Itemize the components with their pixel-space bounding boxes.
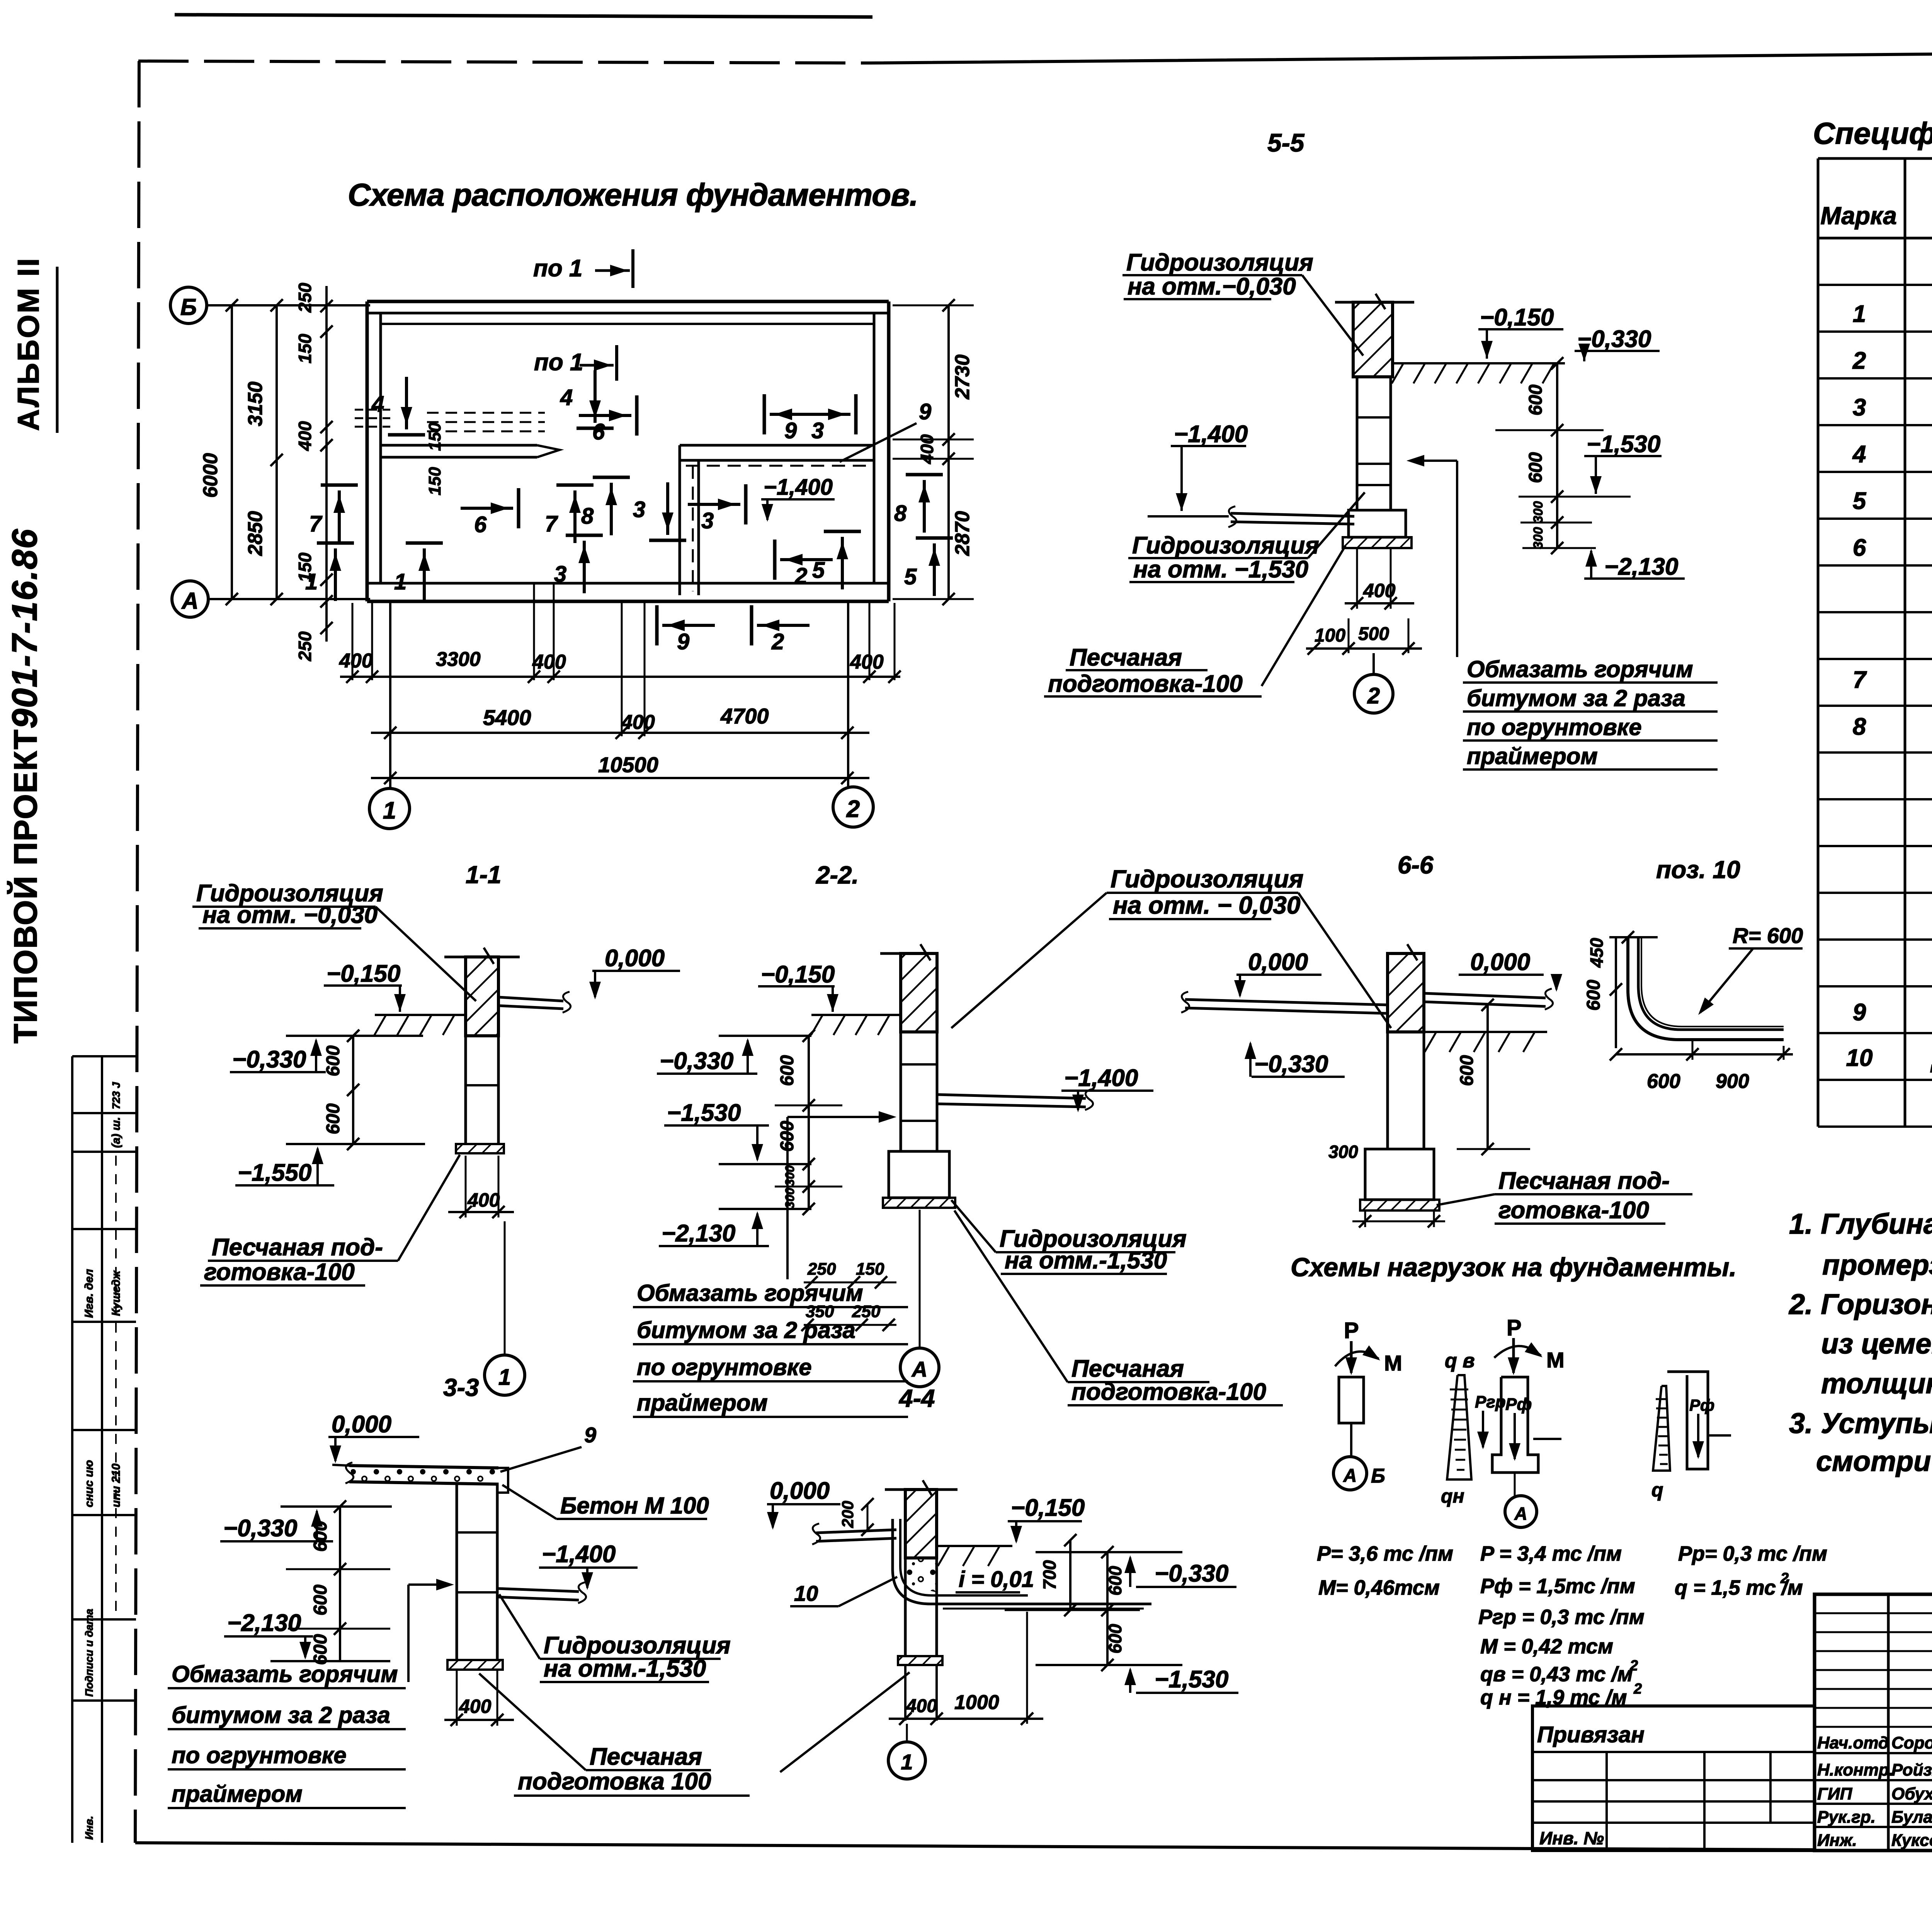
- 4-4 peschanaya leader: [780, 1672, 910, 1772]
- svg-text:600: 600: [1583, 980, 1604, 1011]
- 2-2 dim vertical: [808, 1036, 810, 1209]
- 1-1 wall hatched: [466, 957, 498, 1036]
- svg-text:5400: 5400: [483, 705, 531, 730]
- svg-text:на отм.−0,030: на отм.−0,030: [1128, 273, 1296, 300]
- svg-text:723 J: 723 J: [110, 1082, 122, 1109]
- svg-text:1: 1: [394, 569, 406, 594]
- svg-text:300: 300: [1328, 1142, 1358, 1162]
- plan cut mark 4: [577, 427, 614, 430]
- svg-text:Песчаная под-: Песчаная под-: [212, 1234, 383, 1261]
- svg-text:Подписи и дата: Подписи и дата: [83, 1609, 95, 1697]
- svg-text:3: 3: [633, 497, 645, 522]
- svg-text:qн: qн: [1441, 1485, 1464, 1507]
- svg-text:ипи 210: ипи 210: [110, 1463, 122, 1507]
- svg-text:400: 400: [295, 421, 315, 451]
- svg-text:Схема расположения фундамент: Схема расположения фундаментов.: [348, 177, 918, 213]
- svg-text:1. Глубина заложения фундам: 1. Глубина заложения фундамента принята …: [1789, 1208, 1932, 1240]
- plan cut mark 9: [763, 394, 766, 434]
- svg-text:Ройзман: Ройзман: [1891, 1760, 1932, 1779]
- plan cut mark 5: [824, 530, 861, 533]
- svg-text:М = 0,42 тсм: М = 0,42 тсм: [1480, 1635, 1613, 1658]
- pos10 left dim: [1615, 937, 1617, 1048]
- 5-5 floor slab: [1231, 513, 1354, 516]
- svg-text:9: 9: [784, 418, 797, 443]
- plan cut mark 5: [916, 536, 953, 540]
- dim chain small left: [325, 286, 328, 642]
- svg-text:150: 150: [295, 552, 315, 582]
- svg-text:400: 400: [917, 434, 937, 464]
- svg-text:600: 600: [777, 1055, 798, 1086]
- svg-text:−2,130: −2,130: [662, 1220, 735, 1247]
- svg-text:Спецификация к схеме располо: Спецификация к схеме расположения фундам…: [1813, 116, 1932, 150]
- svg-text:−1,400: −1,400: [542, 1541, 616, 1568]
- svg-text:250: 250: [807, 1260, 836, 1279]
- svg-text:q в: q в: [1445, 1350, 1475, 1372]
- svg-text:2. Горизонтальная гидроизоля: 2. Горизонтальная гидроизоляция стен вып…: [1788, 1288, 1932, 1320]
- spec table horizontal lines: [1818, 157, 1932, 160]
- 3-3 top slab: [349, 1466, 498, 1468]
- svg-text:А: А: [1514, 1503, 1527, 1524]
- svg-text:Н.контр.: Н.контр.: [1817, 1760, 1894, 1779]
- svg-text:4: 4: [560, 385, 573, 410]
- svg-text:P = 3,4 тс /пм: P = 3,4 тс /пм: [1480, 1542, 1622, 1565]
- svg-text:А: А: [911, 1357, 927, 1381]
- 6-6 wall hatched: [1388, 953, 1424, 1032]
- svg-text:5: 5: [1853, 488, 1867, 514]
- svg-text:ГИП: ГИП: [1817, 1784, 1853, 1803]
- svg-text:−1,400: −1,400: [1064, 1065, 1138, 1091]
- svg-text:6: 6: [1853, 535, 1866, 561]
- svg-text:по 1: по 1: [533, 255, 582, 282]
- axis circle 1: [369, 788, 410, 829]
- svg-text:по огрунтовке: по огрунтовке: [1467, 714, 1642, 740]
- upper grid verticals: [1887, 1594, 1890, 1851]
- svg-text:толщиной 20 мм.: толщиной 20 мм.: [1821, 1367, 1932, 1399]
- svg-text:Булатова: Булатова: [1891, 1808, 1932, 1827]
- svg-text:9: 9: [584, 1423, 596, 1447]
- svg-text:3: 3: [1853, 394, 1866, 421]
- svg-text:400: 400: [532, 651, 566, 673]
- svg-text:−0,330: −0,330: [1254, 1051, 1328, 1078]
- 6-6 slab left: [1185, 999, 1388, 1005]
- spec table vertical lines: [1817, 158, 1820, 1127]
- svg-text:Гидроизоляция: Гидроизоляция: [1111, 865, 1303, 893]
- svg-text:−1,530: −1,530: [667, 1100, 741, 1126]
- svg-text:праймером: праймером: [637, 1390, 768, 1416]
- svg-text:400: 400: [621, 711, 655, 734]
- svg-text:ТИПОВОЙ ПРОЕКТ: ТИПОВОЙ ПРОЕКТ: [7, 729, 44, 1044]
- dim chain 400-3300-400: [340, 676, 900, 678]
- 5-5 slab level line: [1148, 515, 1229, 518]
- svg-text:Инж.: Инж.: [1817, 1831, 1857, 1850]
- svg-text:600: 600: [1526, 452, 1546, 483]
- 6-6 wall below: [1386, 1032, 1389, 1149]
- svg-text:снис ию: снис ию: [83, 1460, 95, 1507]
- room left wall: [679, 445, 681, 595]
- axis line B: [207, 304, 370, 306]
- 1-1 sand strip: [456, 1144, 504, 1153]
- svg-text:праймером: праймером: [1467, 743, 1598, 769]
- 2-2 ground hatch left: [811, 1014, 901, 1016]
- privyazan box: [1532, 1706, 1815, 1851]
- svg-text:−2,130: −2,130: [227, 1610, 301, 1636]
- svg-text:400: 400: [850, 651, 884, 673]
- svg-text:Рук.гр.: Рук.гр.: [1817, 1808, 1876, 1827]
- svg-text:3150: 3150: [244, 381, 267, 426]
- svg-text:−1,550: −1,550: [238, 1159, 311, 1186]
- svg-text:−0,330: −0,330: [232, 1046, 306, 1073]
- scheme2 M arc: [1494, 1346, 1541, 1358]
- svg-text:7: 7: [1853, 667, 1867, 693]
- svg-text:М: М: [1384, 1351, 1402, 1375]
- 3-3 obmazat leader: [407, 1585, 410, 1682]
- left stamp table verticals: [71, 1056, 73, 1843]
- svg-text:5-5: 5-5: [1267, 128, 1305, 157]
- scheme1 column: [1339, 1377, 1364, 1423]
- svg-text:6: 6: [474, 512, 487, 537]
- 4-4 right dims: [1069, 1540, 1071, 1610]
- svg-text:Песчаная: Песчаная: [1071, 1355, 1184, 1382]
- 2-2 wall hatched: [901, 953, 937, 1032]
- svg-text:150: 150: [425, 467, 444, 495]
- svg-text:по 1: по 1: [534, 349, 583, 376]
- plan cut mark 3: [744, 484, 748, 524]
- svg-text:0,000: 0,000: [332, 1411, 391, 1438]
- svg-text:9: 9: [919, 399, 931, 424]
- svg-text:600: 600: [1647, 1070, 1680, 1093]
- plan cut mark 3: [566, 534, 603, 537]
- svg-text:Б: Б: [180, 294, 197, 320]
- pos10 top ticks: [1609, 936, 1658, 938]
- dim line 6000: [231, 305, 233, 599]
- svg-text:2850: 2850: [244, 511, 267, 556]
- svg-text:−0,330: −0,330: [1155, 1560, 1228, 1587]
- upper grid rows: [1815, 1612, 1932, 1614]
- svg-text:150: 150: [295, 334, 315, 363]
- svg-text:−1,530: −1,530: [1155, 1666, 1228, 1693]
- svg-text:по огрунтовке: по огрунтовке: [637, 1354, 812, 1380]
- svg-text:готовка-100: готовка-100: [204, 1259, 355, 1285]
- svg-text:3300: 3300: [436, 648, 481, 671]
- svg-text:1: 1: [383, 797, 396, 824]
- svg-text:готовка-100: готовка-100: [1498, 1197, 1649, 1224]
- svg-text:0,000: 0,000: [1248, 949, 1308, 976]
- svg-text:5: 5: [904, 564, 917, 589]
- 2-2 wall below: [900, 1032, 902, 1151]
- 2-2 circle A: [900, 1348, 939, 1387]
- 4-4 floor slab: [816, 1530, 896, 1533]
- svg-text:подготовка-100: подготовка-100: [1071, 1379, 1266, 1405]
- 6-6 ground hatch: [1424, 1031, 1547, 1033]
- plan cut mark 7: [321, 484, 358, 487]
- svg-text:Песчаная под-: Песчаная под-: [1498, 1168, 1670, 1194]
- svg-text:400: 400: [459, 1696, 492, 1717]
- svg-text:P: P: [1344, 1318, 1359, 1343]
- dim chain 10500: [371, 777, 869, 779]
- svg-text:А: А: [181, 588, 198, 614]
- svg-text:600: 600: [1105, 1566, 1125, 1595]
- svg-text:1: 1: [498, 1365, 511, 1390]
- svg-text:Pф: Pф: [1689, 1396, 1714, 1414]
- svg-text:−1,400: −1,400: [1174, 421, 1248, 448]
- svg-text:q: q: [1651, 1479, 1663, 1501]
- plan cut mark 2: [773, 540, 777, 580]
- 5-5 sand strip: [1343, 537, 1412, 548]
- right dim chain: [947, 305, 950, 599]
- svg-text:Гидроизоляция: Гидроизоляция: [1126, 249, 1313, 276]
- svg-text:3. Уступы на схеме условн: 3. Уступы на схеме условно не показаны,: [1789, 1407, 1932, 1439]
- svg-text:Гидроизоляция: Гидроизоляция: [544, 1632, 731, 1659]
- 5-5 footing: [1349, 510, 1406, 537]
- svg-text:Игв. дел: Игв. дел: [83, 1269, 95, 1318]
- axis circle B: [170, 287, 207, 323]
- svg-text:Pгр = 0,3 тс /пм: Pгр = 0,3 тс /пм: [1478, 1605, 1645, 1629]
- svg-text:4: 4: [371, 392, 384, 417]
- svg-text:на отм. −1,530: на отм. −1,530: [1133, 556, 1308, 583]
- svg-text:3: 3: [811, 418, 824, 443]
- 1-1 wall top caps: [444, 956, 466, 958]
- svg-text:10500: 10500: [598, 752, 658, 777]
- plan cut mark 6: [635, 395, 639, 436]
- extension lines bottom: [352, 603, 354, 680]
- svg-text:2870: 2870: [951, 511, 974, 556]
- svg-text:Нач.отд: Нач.отд: [1817, 1733, 1889, 1752]
- 4-4 wall below strip: [904, 1665, 906, 1721]
- 1-1 ground hatch: [375, 1014, 466, 1016]
- svg-text:на отм. − 0,030: на отм. − 0,030: [1113, 891, 1300, 919]
- 5-5 wall hatched: [1353, 302, 1393, 377]
- plan cut mark 1: [406, 541, 443, 545]
- svg-text:250: 250: [295, 631, 315, 661]
- svg-text:Обух: Обух: [1891, 1784, 1932, 1803]
- 4-4 ground hatch: [937, 1545, 1012, 1547]
- svg-text:9: 9: [677, 629, 689, 654]
- 4-4 wall hatched: [905, 1490, 937, 1558]
- 4-4 gravel: [905, 1558, 937, 1592]
- svg-text:900: 900: [1716, 1070, 1749, 1093]
- scheme1 M arc: [1335, 1352, 1379, 1366]
- svg-text:АЛЬБОМ II: АЛЬБОМ II: [11, 257, 45, 431]
- svg-text:500: 500: [1358, 624, 1389, 644]
- svg-text:2-2.: 2-2.: [816, 861, 859, 889]
- svg-text:праймером: праймером: [172, 1781, 303, 1807]
- scheme1 axis circles: [1333, 1457, 1367, 1490]
- svg-text:Куксов: Куксов: [1891, 1831, 1932, 1850]
- svg-text:2: 2: [771, 629, 784, 654]
- svg-text:7: 7: [545, 511, 558, 536]
- svg-text:7: 7: [309, 511, 323, 536]
- room top wall: [680, 444, 874, 447]
- scheme2 axis circle: [1505, 1496, 1537, 1527]
- svg-text:2: 2: [794, 564, 807, 589]
- dim chain 5400-400-4700: [371, 732, 869, 734]
- svg-text:Обмазать горячим: Обмазать горячим: [172, 1661, 398, 1687]
- 2-2 obmazat leader: [786, 1117, 789, 1279]
- svg-text:P= 3,6 тс /пм: P= 3,6 тс /пм: [1317, 1542, 1453, 1565]
- svg-text:600: 600: [310, 1521, 331, 1552]
- 3-3 left dim: [339, 1507, 341, 1660]
- plan cut mark 3: [649, 539, 686, 542]
- frame top border: [138, 61, 869, 63]
- 3-3 floor slab: [497, 1588, 579, 1592]
- svg-text:6-6: 6-6: [1398, 851, 1434, 879]
- svg-text:300: 300: [783, 1165, 797, 1186]
- signature rows: [1815, 1752, 1932, 1754]
- svg-text:250: 250: [295, 283, 315, 313]
- svg-text:2: 2: [846, 796, 860, 822]
- svg-text:400: 400: [467, 1189, 500, 1211]
- svg-text:2: 2: [1780, 1570, 1789, 1587]
- svg-text:из цементного растворного: из цементного растворного состава 1:2.: [1821, 1328, 1932, 1360]
- svg-text:5: 5: [812, 558, 825, 583]
- svg-text:Б: Б: [1371, 1465, 1385, 1487]
- svg-text:1: 1: [901, 1750, 913, 1774]
- svg-text:9: 9: [1853, 999, 1866, 1026]
- 5-5 wall below ground: [1356, 377, 1359, 510]
- svg-text:600: 600: [1526, 385, 1546, 415]
- 5-5 right dim line: [1556, 363, 1558, 548]
- svg-text:700: 700: [1039, 1560, 1060, 1590]
- svg-text:i = 0,01: i = 0,01: [959, 1567, 1034, 1592]
- axis extension line 2: [847, 603, 849, 787]
- 3-3 sand strip: [447, 1660, 503, 1670]
- 1-1 wall below: [464, 1036, 467, 1144]
- svg-text:Песчаная: Песчаная: [590, 1743, 702, 1770]
- svg-text:2: 2: [1852, 347, 1866, 374]
- svg-text:8: 8: [581, 504, 594, 529]
- svg-text:на отм.-1,530: на отм.-1,530: [544, 1655, 706, 1682]
- title block outer: [1815, 1594, 1932, 1851]
- svg-text:−0,150: −0,150: [1011, 1495, 1085, 1521]
- svg-text:Обмазать горячим: Обмазать горячим: [637, 1280, 863, 1306]
- svg-text:4700: 4700: [720, 704, 769, 728]
- svg-text:4-4: 4-4: [898, 1384, 935, 1412]
- plan cut mark 6: [517, 488, 520, 528]
- 6-6 slab right: [1424, 993, 1546, 998]
- svg-text:2730: 2730: [951, 354, 974, 400]
- axis extension line 1: [389, 603, 391, 788]
- interior wall: [381, 444, 537, 447]
- svg-text:−0,330: −0,330: [223, 1515, 297, 1542]
- axis circle 2: [833, 787, 873, 827]
- axis line A: [208, 598, 370, 600]
- svg-text:Песчаная: Песчаная: [1070, 644, 1182, 671]
- svg-text:битумом за 2 раза: битумом за 2 раза: [637, 1317, 855, 1343]
- svg-text:Привязан: Привязан: [1537, 1722, 1645, 1747]
- svg-text:600: 600: [323, 1103, 344, 1134]
- svg-text:6000: 6000: [199, 453, 222, 498]
- svg-text:1-1: 1-1: [466, 861, 502, 889]
- svg-text:−0,150: −0,150: [761, 961, 835, 988]
- svg-text:150: 150: [425, 422, 444, 451]
- svg-text:Инв.: Инв.: [83, 1816, 95, 1840]
- svg-text:смотри развертки КЖ-3 .: смотри развертки КЖ-3 .: [1816, 1445, 1932, 1477]
- plan right wall: [887, 301, 891, 601]
- svg-text:3-3: 3-3: [443, 1374, 479, 1401]
- svg-text:300: 300: [1531, 527, 1546, 549]
- svg-text:Обмазать горячим: Обмазать горячим: [1467, 656, 1693, 682]
- 3-3 wall: [456, 1483, 458, 1660]
- svg-text:4: 4: [1852, 441, 1866, 468]
- svg-text:8: 8: [1853, 713, 1866, 740]
- plan cut mark 7: [556, 484, 594, 487]
- plan cut mark 8: [593, 476, 630, 479]
- svg-text:Pгр: Pгр: [1475, 1393, 1506, 1411]
- plan cut mark 8: [906, 473, 943, 477]
- svg-text:Бетон М 100: Бетон М 100: [560, 1493, 709, 1519]
- svg-text:(а) ш.: (а) ш.: [110, 1117, 122, 1148]
- pos10 pipe: [1628, 937, 1784, 1040]
- svg-text:битумом за 2 раза: битумом за 2 раза: [1467, 685, 1685, 711]
- svg-text:Pр= 0,3 тс /пм: Pр= 0,3 тс /пм: [1678, 1542, 1827, 1565]
- scheme3 soil wedge: [1653, 1386, 1670, 1471]
- scheme3 wall: [1667, 1372, 1708, 1469]
- svg-text:R= 600: R= 600: [1733, 923, 1803, 948]
- svg-text:на отм. −0,030: на отм. −0,030: [202, 902, 378, 928]
- svg-text:Pф: Pф: [1505, 1395, 1532, 1414]
- svg-text:−1,400: −1,400: [764, 475, 833, 500]
- pos10 bottom dim: [1616, 1053, 1793, 1056]
- svg-text:3: 3: [701, 508, 714, 533]
- 5-5 obmazat leader: [1456, 461, 1458, 657]
- plan cut mark 2: [750, 605, 753, 645]
- 6-6 right dim: [1486, 1005, 1489, 1149]
- svg-text:qв = 0,43 тс /м: qв = 0,43 тс /м: [1480, 1663, 1633, 1686]
- 4-4 wall below: [904, 1558, 907, 1656]
- svg-text:подготовка 100: подготовка 100: [518, 1768, 711, 1795]
- 6-6 footing: [1365, 1149, 1434, 1200]
- 4-4 circle 1: [888, 1742, 925, 1779]
- svg-text:Инв. №: Инв. №: [1539, 1828, 1604, 1848]
- svg-text:1: 1: [1853, 301, 1866, 327]
- 4-4 wall top caps: [885, 1488, 905, 1491]
- svg-text:2: 2: [1367, 683, 1380, 708]
- scheme2 soil wedge: [1447, 1375, 1471, 1479]
- frame bottom border: [135, 1843, 1815, 1850]
- plan bottom wall: [367, 582, 889, 585]
- svg-text:А: А: [1343, 1466, 1357, 1486]
- svg-text:P: P: [1507, 1315, 1522, 1340]
- 2-2 sand strip: [883, 1198, 955, 1208]
- 5-5 ground hatch: [1393, 362, 1565, 364]
- svg-text:подготовка-100: подготовка-100: [1048, 671, 1243, 697]
- svg-text:300: 300: [783, 1188, 797, 1209]
- svg-text:6: 6: [592, 419, 605, 444]
- 1-1 circle 1: [485, 1355, 525, 1395]
- svg-text:−1,530: −1,530: [1587, 431, 1660, 458]
- svg-text:200: 200: [838, 1501, 857, 1528]
- svg-text:300: 300: [1531, 501, 1546, 523]
- svg-text:Гидроизоляция: Гидроизоляция: [1132, 532, 1319, 559]
- svg-text:10: 10: [794, 1581, 818, 1605]
- svg-text:450: 450: [1587, 938, 1607, 968]
- svg-text:−0,150: −0,150: [327, 960, 400, 987]
- svg-text:Марка: Марка: [1820, 202, 1897, 230]
- paper top edge line: [175, 15, 872, 17]
- 4-4 gutter: [893, 1519, 1028, 1604]
- svg-text:1000: 1000: [954, 1691, 999, 1714]
- privyazan verticals: [1605, 1752, 1608, 1851]
- svg-text:600: 600: [323, 1045, 344, 1076]
- svg-text:400: 400: [339, 650, 373, 672]
- svg-text:600: 600: [310, 1585, 331, 1616]
- underline of ALBOM II: [56, 267, 59, 433]
- 2-2 floor slab: [937, 1095, 1086, 1098]
- axis circle A: [172, 581, 208, 617]
- 5-5 top wall caps: [1335, 301, 1353, 304]
- frame left border: [135, 61, 139, 1843]
- svg-text:поз. 10: поз. 10: [1656, 856, 1740, 884]
